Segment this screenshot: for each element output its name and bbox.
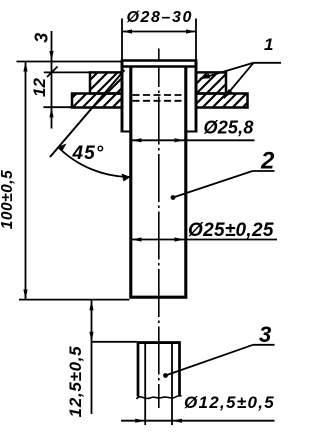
tube wall left (part 2) [129, 67, 132, 299]
ext line block top level [44, 71, 90, 73]
leader 3 dot [163, 373, 168, 378]
svg-text:45°: 45° [72, 143, 105, 164]
svg-text:12,5±0,5: 12,5±0,5 [66, 346, 85, 418]
ext line plate bottom [43, 106, 72, 108]
arrow down to cap top [49, 51, 53, 61]
arc arrow right [122, 174, 131, 182]
tube wall right (part 2) [184, 67, 187, 299]
arc arrow left [58, 144, 67, 152]
dim 12,5 line [91, 300, 93, 414]
plate left bar (part 1) [72, 94, 122, 108]
step left [121, 131, 132, 133]
svg-text:100±0,5: 100±0,5 [0, 170, 16, 229]
rod thread line right [171, 344, 173, 425]
svg-text:Ø12,5±0,5: Ø12,5±0,5 [184, 393, 275, 412]
tube bottom edge [129, 296, 187, 299]
hidden line upper [133, 94, 186, 96]
label 2 shelf [253, 170, 275, 172]
rod thread line left [144, 344, 146, 425]
svg-text:3: 3 [259, 322, 271, 347]
ext line cap top level [17, 61, 123, 63]
dim Ø25±0,25 line [132, 239, 278, 241]
svg-text:12: 12 [30, 78, 49, 97]
plate right bar (part 1) [196, 94, 248, 108]
ext line tube bottom [19, 299, 129, 301]
dim 100 line [25, 62, 27, 300]
leader 2 [173, 171, 253, 198]
hidden line lower [133, 100, 186, 102]
right block (part 1 boss) [196, 72, 226, 93]
rod left wall [137, 343, 140, 397]
dim Ø28-30 line [122, 31, 196, 33]
ext line rod top [92, 341, 137, 343]
leader 3 [166, 345, 254, 376]
left block (part 1 boss) [90, 72, 122, 93]
break wavy line [137, 396, 182, 400]
svg-text:Ø28–30: Ø28–30 [127, 9, 194, 26]
dim 3/12 chain line [51, 31, 53, 129]
svg-text:Ø25±0,25: Ø25±0,25 [188, 220, 274, 241]
rod right wall [178, 343, 181, 396]
svg-text:1: 1 [264, 35, 273, 54]
leader 1 upper [200, 63, 254, 79]
dim Ø28-30 ext left [121, 19, 123, 61]
dim Ø28-30 ext right [195, 19, 197, 61]
tick at block top [47, 67, 58, 78]
step right [186, 131, 198, 133]
label 3 shelf [253, 344, 275, 346]
leader 2 dot [171, 195, 176, 200]
leader 1 lower [224, 63, 254, 98]
svg-text:Ø25,8: Ø25,8 [204, 118, 254, 138]
hole edge right v4 [195, 61, 198, 133]
dim Ø12,5 line [121, 420, 275, 422]
arrow up to plate bottom [49, 107, 53, 117]
45 deg arc [58, 147, 131, 177]
45 deg chamfer line [50, 70, 125, 157]
rod top edge (part 3) [137, 341, 181, 344]
centerline [158, 49, 160, 409]
dim Ø25,8 line [132, 139, 255, 141]
cap flare top [122, 61, 196, 67]
hole edge left v1 [121, 61, 124, 133]
svg-text:3: 3 [32, 33, 52, 43]
label 1 shelf [254, 62, 282, 64]
